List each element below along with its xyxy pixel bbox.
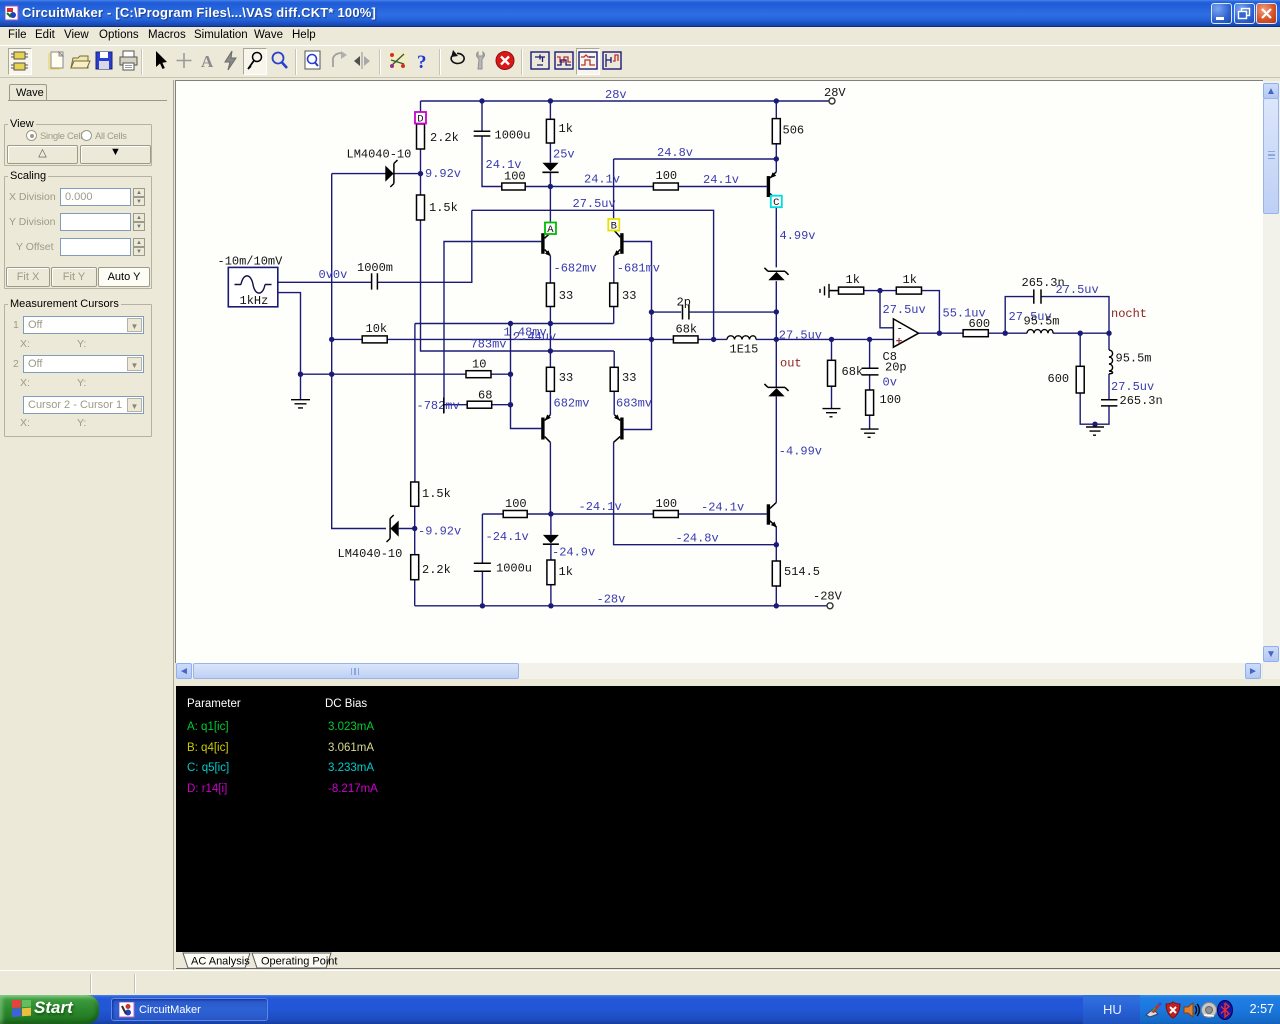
wire Q2 base to V4 (624, 242, 652, 430)
resistor 33 upper-left (546, 283, 554, 307)
node dot 600 shunt (1078, 331, 1083, 336)
schematic viewport (175, 80, 1263, 663)
svg-text:33: 33 (559, 289, 573, 303)
node dot out (774, 337, 779, 342)
svg-text:0v0v: 0v0v (319, 268, 348, 282)
wire 265.3n top branch (1005, 297, 1109, 334)
wire 1k2 to output (922, 291, 940, 334)
wire source return (278, 293, 301, 375)
source V1 signal generator (228, 267, 277, 306)
svg-text:C: C (773, 197, 779, 209)
resistor 1k bottom (547, 560, 555, 585)
wire 600 shunt (1080, 333, 1095, 424)
probe D (415, 112, 426, 124)
svg-text:100: 100 (504, 170, 526, 184)
svg-text:A: A (201, 52, 214, 71)
wire LM4040 top link (332, 173, 421, 175)
svg-text:4.99v: 4.99v (780, 229, 816, 243)
ground 68k right (823, 409, 841, 417)
resistor 68 (467, 401, 492, 408)
probe A (545, 223, 556, 235)
wire opamp minus (880, 291, 893, 328)
menu bar (0, 27, 1280, 45)
wire top 1k diode branch (549, 101, 551, 187)
resistor 1k top (546, 119, 554, 143)
resistor 33 lower-right (610, 367, 618, 391)
transistor Q1 (541, 233, 544, 254)
node dot emitters join (548, 321, 553, 326)
ground 1k sideways (820, 284, 839, 298)
node dot 68k right (829, 337, 834, 342)
svg-text:24.1v: 24.1v (584, 173, 620, 187)
wire Q6 emitter 514.5 (775, 528, 777, 606)
node dot V4-2p (649, 309, 654, 314)
resistor 68k right (828, 360, 836, 386)
wire -28v bottom rail (415, 605, 827, 607)
svg-text:27.5uv: 27.5uv (1111, 380, 1154, 394)
svg-text:1E15: 1E15 (730, 343, 759, 357)
wire bottom 1000u branch (481, 514, 483, 606)
node dot 24.8v (774, 156, 779, 161)
Measurement Cursors group (4, 304, 152, 437)
svg-text:20p: 20p (885, 361, 907, 375)
node dot filter in (1003, 331, 1008, 336)
wire A emitters join (415, 307, 614, 324)
wire out node chain (776, 312, 831, 388)
svg-text:27.5uv: 27.5uv (573, 197, 616, 211)
node dot 28v-506 (774, 98, 779, 103)
svg-text:-: - (897, 324, 904, 336)
svg-text:100: 100 (656, 169, 678, 183)
node dot gnd rail left (298, 372, 303, 377)
svg-text:-24.1v: -24.1v (579, 500, 622, 514)
inductor 1E15 (727, 336, 756, 340)
svg-text:-681mv: -681mv (617, 262, 660, 276)
resistor 100 bottom-right (653, 511, 678, 518)
wire C lower 33 tops (550, 351, 614, 367)
svg-text:-24.1v: -24.1v (486, 530, 529, 544)
svg-text:?: ? (417, 52, 427, 73)
svg-text:24.8v: 24.8v (657, 146, 693, 160)
tray speaker icon (1184, 1003, 1193, 1017)
wire Q2 collector (613, 159, 615, 219)
wire V0 reference branch top (421, 101, 615, 351)
vertical scrollbar (1263, 81, 1280, 679)
node dot 28v-1000u (479, 98, 484, 103)
resistor 33 upper-right (610, 283, 618, 307)
resistor 100 bottom-left (503, 511, 527, 518)
zener -4.99v (768, 388, 784, 396)
op-amp U1 (893, 319, 918, 347)
svg-text:LM4040-10: LM4040-10 (347, 148, 412, 162)
wire 68 resistor row (444, 404, 511, 406)
svg-text:1k: 1k (559, 565, 573, 579)
tray bluetooth icon (1218, 1001, 1233, 1020)
svg-text:682mv: 682mv (554, 397, 590, 411)
capacitor 265.3n top (1034, 289, 1041, 303)
node dot filter gnd (1092, 422, 1097, 427)
resistor 600 series (963, 330, 988, 337)
taskbar (0, 995, 1280, 1024)
wire -24.1v bottom rail (482, 513, 766, 515)
svg-text:600: 600 (1048, 372, 1070, 386)
svg-text:LM4040-10: LM4040-10 (338, 547, 403, 561)
svg-text:-24.8v: -24.8v (676, 532, 719, 546)
resistor 1k feedback (896, 287, 921, 294)
svg-text:33: 33 (622, 371, 636, 385)
capacitor 265.3n bottom (1101, 400, 1117, 406)
node dot -28v 1k (548, 603, 553, 608)
wire LM4040 bottom link (399, 528, 415, 530)
wire Q4 emitter (613, 391, 615, 415)
probe C (771, 196, 782, 208)
wire V3 zener rail (332, 174, 386, 529)
svg-text:1.5k: 1.5k (429, 201, 458, 215)
wire Q1 emitter to 33 (549, 256, 551, 283)
resistor 514.5 (772, 561, 780, 586)
svg-text:27.5uv: 27.5uv (1056, 283, 1099, 297)
svg-text:A: A (547, 224, 554, 236)
svg-text:100: 100 (656, 497, 678, 511)
wire Q5 base (678, 186, 767, 188)
wire B main 10k row (332, 338, 777, 340)
svg-text:1kHz: 1kHz (240, 294, 269, 308)
node dot 10k-V3 (329, 337, 334, 342)
node dot LM4040 bottom (412, 526, 417, 531)
capacitor 1000u top (474, 131, 491, 136)
capacitor 1000u bottom (474, 563, 491, 571)
wire Q4 collector (614, 442, 777, 544)
node dot wireA-V2 (508, 321, 513, 326)
svg-text:out: out (780, 357, 802, 371)
node dot C8 top (867, 337, 872, 342)
inductor 95.5m horizontal (1027, 330, 1053, 334)
wire 68k right branch (831, 339, 833, 408)
resistor 2.2k top (417, 124, 425, 149)
window title bar (0, 0, 1280, 27)
wire C8 branch (869, 339, 871, 428)
svg-text:27.5uv: 27.5uv (883, 303, 926, 317)
svg-text:27.5uv: 27.5uv (779, 328, 822, 342)
ground main (291, 400, 310, 408)
resistor 33 lower-left (546, 367, 554, 391)
svg-text:1.5k: 1.5k (422, 487, 451, 501)
svg-text:-24.9v: -24.9v (552, 546, 595, 560)
svg-text:B: B (611, 221, 617, 233)
capacitor 1000m (372, 273, 378, 289)
transistor Q2 (620, 233, 623, 254)
svg-text:10: 10 (472, 358, 486, 372)
svg-text:10k: 10k (366, 322, 388, 336)
svg-text:2.44uv: 2.44uv (513, 330, 556, 344)
resistor 600 shunt (1076, 366, 1084, 393)
svg-text:506: 506 (783, 124, 805, 138)
wire Q1 collector (549, 187, 551, 222)
svg-text:1k: 1k (559, 122, 573, 136)
left control panel (0, 80, 174, 975)
svg-text:-682mv: -682mv (554, 262, 597, 276)
resistor 68k feedback (673, 336, 698, 343)
svg-text:-10m/10mV: -10m/10mV (218, 255, 284, 269)
wire top 1000u branch (482, 101, 502, 187)
resistor 506 (772, 119, 780, 144)
wire 2p row (652, 311, 777, 313)
wire source output (278, 210, 472, 282)
svg-text:95.5m: 95.5m (1116, 352, 1152, 366)
zener LM4040-10 bottom (390, 521, 398, 537)
node dot nocht (1106, 331, 1111, 336)
svg-text:783mv: 783mv (471, 338, 507, 352)
svg-text:-782mv: -782mv (417, 399, 460, 413)
View group (4, 124, 152, 166)
svg-text:28V: 28V (824, 86, 846, 100)
resistor 1.5k bottom (411, 482, 419, 506)
node dot 10-V2 (508, 372, 513, 377)
svg-text:24.1v: 24.1v (703, 173, 739, 187)
resistor 2.2k bottom (411, 555, 419, 580)
Scaling group (4, 176, 152, 289)
wire 506 branch (775, 101, 777, 159)
svg-text:683mv: 683mv (616, 397, 652, 411)
svg-text:0v: 0v (883, 376, 897, 390)
node dot 55.1uv (937, 331, 942, 336)
svg-text:265.3n: 265.3n (1120, 394, 1163, 408)
ground filter (1086, 427, 1104, 435)
svg-text:AC Analysis: AC Analysis (191, 956, 250, 968)
node dot V4-68k (649, 337, 654, 342)
toolbar (0, 45, 1280, 78)
svg-text:D: D (417, 114, 423, 126)
svg-text:33: 33 (559, 371, 573, 385)
svg-text:33: 33 (622, 289, 636, 303)
svg-text:68k: 68k (842, 365, 864, 379)
wire right output branch (1095, 333, 1109, 424)
tray shield icon (1166, 1002, 1180, 1018)
svg-text:-28V: -28V (813, 590, 843, 604)
wire top 100 to center (525, 186, 653, 188)
wire opamp plus row (832, 338, 894, 340)
wire opamp out (919, 332, 1006, 334)
wire bottom diode 1k branch (550, 514, 552, 606)
resistor 10k (362, 336, 387, 343)
svg-text:95.5m: 95.5m (1024, 315, 1060, 329)
wire Q5 collector chain (775, 159, 777, 312)
svg-text:2.2k: 2.2k (430, 131, 459, 145)
wire tail link (549, 324, 551, 352)
status bar (0, 970, 1280, 995)
svg-text:28v: 28v (605, 88, 627, 102)
svg-text:Operating Point: Operating Point (261, 956, 337, 968)
svg-text:+: + (896, 337, 903, 349)
svg-text:9.92v: 9.92v (425, 167, 461, 181)
horizontal scrollbar (176, 663, 1262, 679)
svg-text:68: 68 (478, 389, 492, 403)
resistor 100 top-left (502, 183, 525, 190)
svg-text:100: 100 (505, 497, 527, 511)
wire V1 lower reference branch (414, 324, 416, 606)
node dot gnd-V3 (329, 372, 334, 377)
wire Q1 base drop (444, 242, 541, 414)
node dot 1k junction (877, 288, 882, 293)
wire Q3 collector (549, 442, 551, 514)
zener LM4040-10 top (385, 166, 393, 182)
node dot out-2p (774, 309, 779, 314)
svg-text:-9.92v: -9.92v (418, 525, 461, 539)
node dot -24.8v (774, 542, 779, 547)
svg-text:1000u: 1000u (495, 129, 531, 143)
wire ground rail 10 resistor (301, 373, 511, 375)
wire 28v top rail (421, 100, 830, 102)
node dot 28v-1k (548, 98, 553, 103)
svg-text:25v: 25v (553, 148, 575, 162)
diode bottom (543, 535, 559, 544)
wire 1k gnd input (830, 290, 897, 292)
capacitor C8 20p (862, 368, 879, 375)
svg-text:-28v: -28v (597, 593, 626, 607)
probe B (608, 219, 619, 231)
capacitor 2p (683, 305, 689, 320)
svg-text:1000u: 1000u (496, 562, 532, 576)
svg-text:nocht: nocht (1111, 307, 1147, 321)
wire coil row (1005, 332, 1109, 334)
wire Q3 emitter (549, 391, 551, 415)
wire Q3 base (511, 324, 542, 429)
svg-text:2p: 2p (677, 296, 691, 310)
wire Q6 collector (775, 396, 777, 502)
diode 25v top (542, 163, 558, 172)
wire Q2 emitter to 33 (613, 256, 615, 283)
sheet tabs (176, 952, 1280, 970)
waveform / operating point panel (176, 686, 1280, 952)
wire 27.5uv feedback top (472, 210, 714, 339)
transistor Q6 (767, 504, 770, 524)
svg-text:-4.99v: -4.99v (779, 445, 822, 459)
node 28V terminal (829, 98, 835, 104)
svg-text:2.2k: 2.2k (422, 563, 451, 577)
node dot -28v 514.5 (774, 603, 779, 608)
inductor 95.5m vertical (1109, 350, 1113, 374)
svg-text:-24.1v: -24.1v (701, 501, 744, 515)
node dot 9.92v (418, 171, 423, 176)
ground C8 (861, 429, 879, 437)
resistor 100 top-right (653, 183, 678, 190)
wire -782mv stub (443, 398, 445, 414)
svg-text:600: 600 (969, 317, 991, 331)
node dot wireC join (548, 348, 553, 353)
node dot -28v 1000u (480, 603, 485, 608)
node -28V terminal (827, 603, 833, 609)
svg-text:1k: 1k (903, 273, 917, 287)
node dot 68-V2 (508, 402, 513, 407)
resistor 10 (466, 371, 491, 378)
resistor 100 C8 (866, 390, 874, 415)
transistor Q3 (541, 418, 544, 440)
transistor Q5 (767, 176, 770, 197)
transistor Q4 (620, 418, 623, 440)
svg-text:68k: 68k (676, 323, 698, 337)
svg-text:100: 100 (880, 393, 902, 407)
tray pen icon (1146, 1009, 1158, 1017)
wire 24.8v cascode (614, 158, 777, 160)
zener 4.99v (768, 272, 784, 280)
tray audio device icon (1202, 1003, 1217, 1018)
svg-text:1000m: 1000m (357, 261, 393, 275)
node dot 68k-1E15 (711, 337, 716, 342)
resistor 1.5k top (417, 195, 425, 220)
node dot 24.1v top (548, 184, 553, 189)
wire ground stem (300, 374, 302, 399)
svg-text:1k: 1k (846, 273, 860, 287)
resistor 1k input (839, 287, 864, 294)
node dot -24.1v rail (548, 511, 553, 516)
svg-text:514.5: 514.5 (784, 565, 820, 579)
